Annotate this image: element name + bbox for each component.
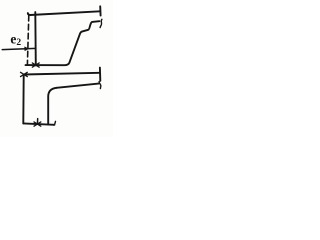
support axis vertical line (upper figure) — [34, 12, 37, 65]
break hook at right end of bottom cut line — [54, 121, 56, 125]
soffit / haunch outline (upper figure) — [26, 21, 100, 65]
soffit line (lower figure) — [57, 84, 99, 88]
break mark at right end of top surface — [99, 6, 101, 15]
load point X2 — [21, 72, 28, 76]
dimension line e2 — [2, 48, 36, 49]
outer wall face (lower figure) — [22, 75, 24, 124]
axis stub above X3 — [36, 119, 38, 125]
svg-text:e2: e2 — [10, 31, 21, 48]
wire top slab surface line (upper figure) — [28, 11, 100, 15]
wall cut bottom line (lower figure) — [23, 123, 54, 124]
top slab line (lower figure) — [24, 73, 100, 75]
break mark at right end of lower-figure soffit — [99, 82, 101, 89]
inner wall face with fillet (lower figure) — [48, 88, 56, 125]
dashed wall-face line (upper figure) — [27, 15, 28, 64]
arrowhead of e2 dimension — [25, 47, 29, 51]
load point X3 — [34, 122, 41, 126]
break mark at right end of lower-figure top line — [99, 68, 101, 81]
break mark at right end of soffit — [100, 19, 102, 27]
load point X1 — [32, 63, 39, 67]
